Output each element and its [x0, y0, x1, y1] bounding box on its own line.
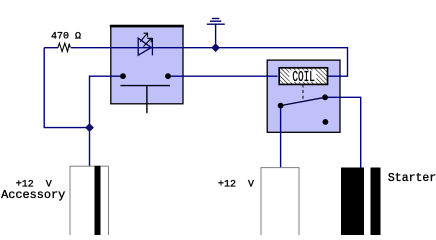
svg-text:+12 V: +12 V: [218, 179, 254, 190]
svg-text:Starter: Starter: [388, 172, 436, 185]
svg-text:Accessory: Accessory: [1, 188, 65, 202]
svg-text:COIL: COIL: [292, 69, 315, 86]
svg-text:470 Ω: 470 Ω: [51, 32, 81, 43]
